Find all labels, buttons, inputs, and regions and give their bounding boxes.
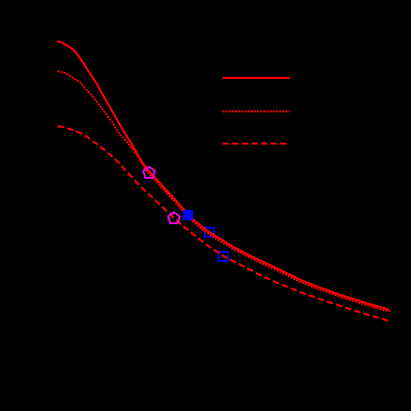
legend dotted line sample [223,110,290,112]
dotted red curve [57,71,390,311]
filled blue square marker (on solid curve) [183,210,193,220]
magenta pentagon marker P2 (on dashed curve) [168,212,180,223]
legend dashed line sample [223,143,289,145]
solid red curve [57,41,389,309]
dashed red curve [58,126,389,321]
legend solid line sample [223,77,290,79]
open square marker S1 (on solid curve) [205,228,214,237]
magenta pentagon marker P1 (on solid curve) [143,167,155,178]
open square marker S2 (on dashed curve) [219,252,228,261]
